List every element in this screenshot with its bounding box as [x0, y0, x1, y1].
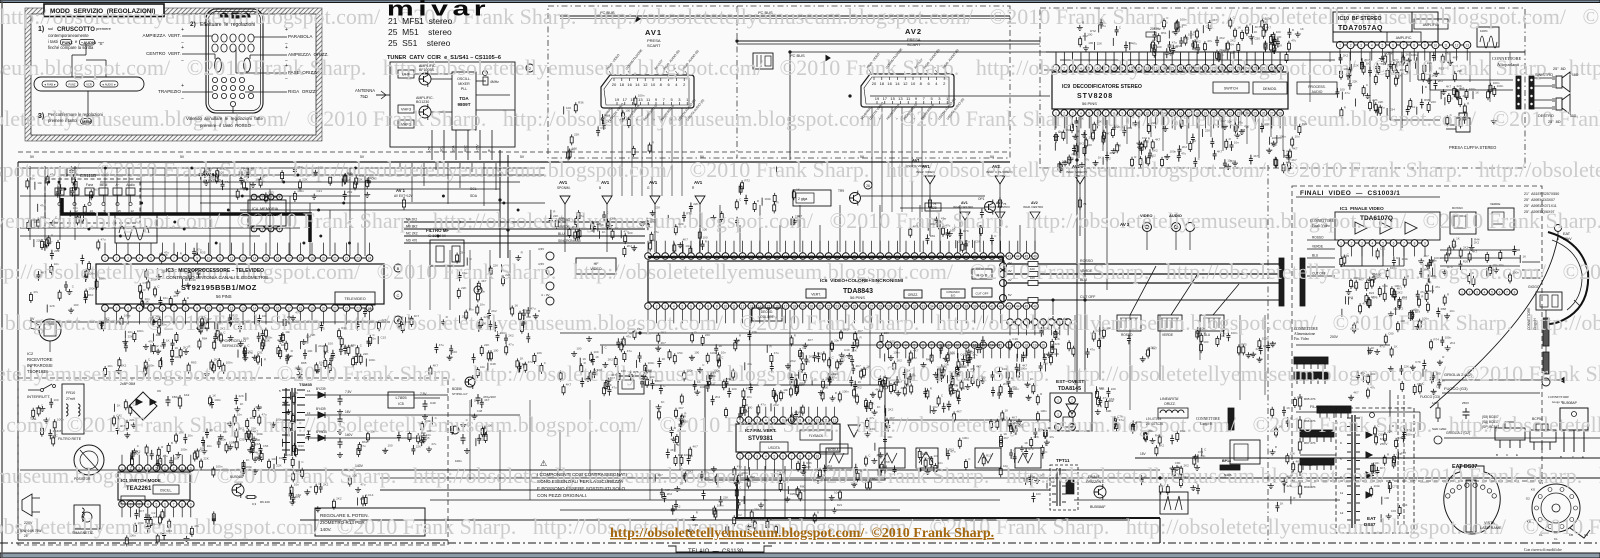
svg-text:TDA7057AQ: TDA7057AQ [1338, 25, 1383, 32]
svg-text:100: 100 [1276, 35, 1281, 39]
svg-text:100n: 100n [757, 517, 764, 521]
svg-text:1K: 1K [952, 227, 956, 231]
svg-text:100: 100 [1062, 159, 1067, 163]
svg-text:10n: 10n [834, 490, 839, 494]
svg-text:I²C BUS: I²C BUS [790, 53, 805, 58]
svg-text:22K: 22K [1097, 42, 1102, 46]
svg-text:3V: 3V [1008, 278, 1012, 282]
svg-text:R74: R74 [1433, 337, 1439, 341]
svg-text:2K2: 2K2 [856, 385, 862, 389]
svg-text:AGC: AGC [464, 144, 468, 152]
svg-text:10n: 10n [1227, 119, 1232, 123]
svg-text:2K2: 2K2 [606, 119, 612, 123]
svg-text:1K: 1K [615, 227, 619, 231]
svg-text:22K: 22K [574, 132, 579, 136]
svg-text:4K7: 4K7 [678, 406, 684, 410]
svg-text:100n: 100n [137, 521, 144, 525]
svg-text:11: 11 [1137, 111, 1141, 115]
svg-text:3: 3 [127, 306, 129, 310]
svg-text:2K2: 2K2 [1272, 143, 1278, 147]
svg-text:1K: 1K [1390, 66, 1394, 70]
svg-text:4K7: 4K7 [41, 271, 47, 275]
svg-text:4K7: 4K7 [661, 341, 667, 345]
svg-text:10n: 10n [882, 387, 887, 391]
svg-text:C98: C98 [1240, 128, 1246, 132]
svg-text:R40: R40 [1155, 433, 1161, 437]
svg-text:4K7: 4K7 [1266, 26, 1272, 30]
svg-text:22K: 22K [884, 331, 889, 335]
svg-text:100n: 100n [151, 278, 158, 282]
svg-text:5V: 5V [700, 155, 705, 159]
svg-text:DEMOD.: DEMOD. [1263, 87, 1277, 91]
svg-text:100: 100 [255, 177, 260, 181]
svg-text:10n: 10n [944, 362, 949, 366]
svg-text:1: 1 [253, 195, 255, 199]
svg-text:4K7: 4K7 [913, 225, 919, 229]
svg-text:KG: KG [1531, 488, 1536, 492]
svg-text:5V: 5V [30, 155, 35, 159]
svg-text:100: 100 [751, 519, 756, 523]
svg-text:47u: 47u [361, 444, 366, 448]
svg-text:2K2: 2K2 [239, 427, 245, 431]
svg-text:4K7: 4K7 [156, 333, 162, 337]
svg-text:BF1005S: BF1005S [419, 68, 435, 72]
svg-text:7: 7 [791, 454, 793, 458]
svg-text:CONNETTORE: CONNETTORE [1294, 327, 1319, 331]
svg-text:10n: 10n [1460, 87, 1465, 91]
svg-text:C71: C71 [143, 281, 149, 285]
svg-text:R87: R87 [961, 364, 967, 368]
svg-text:7: 7 [173, 466, 175, 470]
svg-text:10n: 10n [237, 412, 242, 416]
svg-text:100n: 100n [1262, 336, 1269, 340]
svg-text:47u: 47u [1435, 285, 1440, 289]
svg-text:R72: R72 [744, 178, 750, 182]
svg-text:9: 9 [196, 256, 198, 260]
svg-text:47u: 47u [287, 453, 292, 457]
svg-text:6: 6 [782, 454, 784, 458]
svg-text:2K2: 2K2 [572, 225, 578, 229]
svg-text:A−: A− [115, 183, 119, 187]
svg-text:C51: C51 [1398, 436, 1404, 440]
svg-text:22K: 22K [1055, 337, 1060, 341]
svg-text:1K: 1K [474, 399, 478, 403]
svg-text:18: 18 [792, 304, 796, 308]
svg-text:ORIZZ.: ORIZZ. [908, 293, 919, 297]
svg-text:47u: 47u [135, 451, 140, 455]
svg-text:IC1 SWITCH MODE: IC1 SWITCH MODE [121, 478, 161, 483]
svg-text:2K2: 2K2 [1105, 156, 1111, 160]
svg-text:22K: 22K [958, 240, 963, 244]
svg-text:2K2: 2K2 [827, 464, 833, 468]
svg-text:8: 8 [185, 256, 187, 260]
svg-text:15V: 15V [1140, 452, 1147, 456]
svg-text:C57: C57 [1436, 384, 1442, 388]
svg-text:18: 18 [299, 256, 303, 260]
svg-text:R13: R13 [1439, 66, 1445, 70]
svg-text:2K2: 2K2 [675, 505, 681, 509]
svg-text:R49: R49 [964, 378, 970, 382]
svg-text:4K7: 4K7 [670, 448, 676, 452]
svg-text:8: 8 [1414, 241, 1416, 245]
svg-text:39: 39 [973, 254, 977, 258]
svg-text:TRAPEZIO: TRAPEZIO [158, 89, 181, 94]
svg-text:6: 6 [162, 306, 164, 310]
svg-text:100n: 100n [74, 166, 81, 170]
svg-text:22K: 22K [1055, 342, 1060, 346]
svg-text:4K7: 4K7 [296, 469, 302, 473]
svg-text:4K7: 4K7 [1221, 119, 1227, 123]
svg-text:4K7: 4K7 [889, 416, 895, 420]
svg-text:8: 8 [1413, 43, 1415, 47]
svg-text:4: 4 [673, 254, 675, 258]
svg-text:23: 23 [1237, 111, 1241, 115]
svg-text:4MHz: 4MHz [490, 80, 499, 84]
svg-text:R48: R48 [490, 362, 496, 366]
svg-text:13: 13 [1154, 111, 1158, 115]
svg-text:R99: R99 [41, 216, 47, 220]
svg-text:PROTEZ.: PROTEZ. [126, 499, 139, 503]
svg-text:100n: 100n [245, 465, 252, 469]
svg-text:4K7: 4K7 [1489, 268, 1495, 272]
svg-text:−: − [181, 58, 184, 64]
svg-text:100n: 100n [741, 471, 748, 475]
svg-text:4: 4 [1371, 43, 1373, 47]
svg-text:100: 100 [1276, 30, 1281, 34]
svg-text:19: 19 [801, 254, 805, 258]
svg-text:20: 20 [322, 306, 326, 310]
svg-text:47u: 47u [1090, 348, 1095, 352]
svg-text:2K2: 2K2 [843, 328, 849, 332]
svg-text:1: 1 [739, 454, 741, 458]
svg-text:TDA8843: TDA8843 [843, 288, 873, 295]
svg-text:1K: 1K [608, 378, 612, 382]
svg-text:SINCRONISMI: SINCRONISMI [558, 239, 581, 243]
svg-text:2K2: 2K2 [661, 331, 667, 335]
svg-text:2K2: 2K2 [1219, 48, 1225, 52]
svg-text:100: 100 [1051, 347, 1056, 351]
svg-text:C97: C97 [1206, 25, 1212, 29]
svg-text:4K7: 4K7 [1380, 466, 1386, 470]
svg-text:C86: C86 [459, 251, 465, 255]
svg-text:5: 5 [682, 304, 684, 308]
svg-text:100n: 100n [266, 336, 273, 340]
svg-text:SPGNIM.: SPGNIM. [557, 186, 571, 190]
svg-text:R35: R35 [790, 492, 796, 496]
svg-text:R21: R21 [1302, 122, 1308, 126]
svg-text:1K: 1K [1254, 30, 1258, 34]
svg-text:17: 17 [1187, 66, 1191, 70]
svg-text:100: 100 [1036, 492, 1041, 496]
svg-text:CONNETTORE: CONNETTORE [1548, 395, 1569, 399]
svg-text:100: 100 [576, 347, 581, 351]
svg-text:43: 43 [1007, 304, 1011, 308]
svg-text:11: 11 [964, 343, 968, 347]
svg-text:21: 21 [333, 306, 337, 310]
svg-text:5: 5 [156, 502, 158, 506]
svg-text:100: 100 [1203, 340, 1208, 344]
svg-text:10n: 10n [1220, 334, 1225, 338]
svg-text:VHF1: VHF1 [401, 122, 412, 127]
svg-text:1K: 1K [600, 223, 604, 227]
svg-text:100: 100 [1400, 319, 1405, 323]
svg-text:5V: 5V [30, 317, 35, 321]
svg-text:44: 44 [1016, 304, 1020, 308]
svg-text:1: 1 [647, 304, 649, 308]
svg-text:2: 2 [748, 418, 750, 422]
svg-text:10n: 10n [54, 262, 59, 266]
svg-text:100n: 100n [1374, 484, 1381, 488]
svg-text:TDA: TDA [459, 96, 469, 101]
svg-text:AV 1: AV 1 [396, 188, 406, 193]
svg-text:22K: 22K [806, 465, 811, 469]
svg-text:9: 9 [196, 306, 198, 310]
svg-text:10n: 10n [1374, 461, 1379, 465]
svg-text:C42: C42 [116, 413, 122, 417]
svg-text:10n: 10n [73, 206, 78, 210]
svg-text:47u: 47u [637, 327, 642, 331]
svg-text:10K: 10K [1106, 409, 1111, 413]
svg-text:R21: R21 [837, 503, 843, 507]
svg-text:AV1: AV1 [961, 201, 968, 205]
svg-text:47u: 47u [101, 238, 106, 242]
svg-text:2K2: 2K2 [478, 438, 484, 442]
svg-text:47u: 47u [360, 482, 365, 486]
svg-text:100: 100 [1391, 509, 1396, 513]
svg-text:1: 1 [647, 254, 649, 258]
svg-text:2K2: 2K2 [773, 403, 779, 407]
svg-text:ROSSO: ROSSO [1452, 206, 1464, 210]
svg-text:MIXER: MIXER [458, 82, 470, 86]
svg-text:5V: 5V [648, 369, 653, 373]
svg-text:26: 26 [1262, 66, 1266, 70]
svg-text:16Ω: 16Ω [1572, 73, 1579, 77]
svg-text:19: 19 [615, 97, 620, 102]
svg-text:IC3 : MICROPROCESSORE – TELEVI: IC3 : MICROPROCESSORE – TELEVIDEO [166, 268, 264, 274]
svg-text:10: 10 [911, 81, 916, 86]
svg-text:2K2: 2K2 [1184, 37, 1190, 41]
svg-text:47u: 47u [1018, 425, 1023, 429]
svg-text:47u: 47u [1181, 151, 1186, 155]
svg-text:19: 19 [310, 256, 314, 260]
svg-text:100: 100 [281, 343, 286, 347]
svg-text:100n: 100n [764, 197, 771, 201]
svg-text:19: 19 [875, 96, 880, 101]
svg-text:2: 2 [262, 195, 264, 199]
svg-text:22K: 22K [36, 239, 41, 243]
svg-text:1: 1 [879, 343, 881, 347]
svg-text:STV8208: STV8208 [1077, 93, 1113, 100]
svg-text:G2: G2 [1526, 497, 1530, 501]
svg-text:1K: 1K [145, 300, 149, 304]
svg-text:22K: 22K [1287, 484, 1292, 488]
svg-text:100n: 100n [229, 440, 236, 444]
svg-text:16: 16 [887, 81, 892, 86]
svg-text:1K: 1K [1394, 345, 1398, 349]
svg-text:1K: 1K [1005, 408, 1009, 412]
svg-text:22: 22 [1229, 111, 1233, 115]
svg-text:R98: R98 [160, 344, 166, 348]
svg-text:45: 45 [1025, 304, 1029, 308]
svg-text:10n: 10n [294, 483, 299, 487]
svg-text:AUDIO: AUDIO [1312, 90, 1323, 94]
svg-text:BC856: BC856 [452, 387, 462, 391]
svg-text:10n: 10n [1181, 23, 1186, 27]
svg-text:COMANDO: COMANDO [946, 290, 960, 294]
svg-text:100n: 100n [425, 419, 432, 423]
svg-text:100: 100 [262, 314, 267, 318]
svg-text:100n: 100n [148, 363, 155, 367]
svg-text:1K: 1K [1098, 156, 1102, 160]
svg-text:2K2: 2K2 [508, 334, 514, 338]
svg-text:R48: R48 [926, 358, 932, 362]
svg-text:C88: C88 [303, 341, 309, 345]
svg-text:E: E [1516, 453, 1518, 457]
svg-text:R6 220: R6 220 [260, 500, 270, 504]
svg-text:BCP54: BCP54 [1532, 417, 1543, 421]
svg-text:B: B [397, 266, 400, 271]
svg-text:10n: 10n [644, 378, 649, 382]
svg-text:22K: 22K [1205, 129, 1210, 133]
svg-text:17: 17 [883, 96, 888, 101]
svg-text:2K2: 2K2 [1343, 54, 1349, 58]
svg-text:1K: 1K [1278, 425, 1282, 429]
svg-text:100: 100 [217, 338, 222, 342]
svg-text:R68: R68 [1441, 307, 1447, 311]
svg-text:2K2: 2K2 [1003, 382, 1009, 386]
svg-text:47u: 47u [295, 311, 300, 315]
svg-text:13: 13 [90, 209, 94, 213]
svg-text:47u: 47u [626, 334, 631, 338]
svg-text:LINEARITA': LINEARITA' [1160, 397, 1179, 401]
svg-text:Finali Video: Finali Video [1312, 224, 1330, 228]
svg-text:4K7: 4K7 [1253, 154, 1259, 158]
svg-text:47u: 47u [1119, 418, 1124, 422]
svg-text:C21: C21 [317, 189, 323, 193]
svg-text:100n: 100n [686, 368, 693, 372]
svg-text:http://obsoletetellyemuseum.bl: http://obsoletetellyemuseum.blogspot.com… [0, 310, 1600, 335]
svg-text:10: 10 [207, 256, 211, 260]
svg-text:47u: 47u [462, 271, 467, 275]
svg-text:10n: 10n [161, 323, 166, 327]
svg-text:5V: 5V [860, 155, 865, 159]
svg-text:C70: C70 [1447, 97, 1453, 101]
svg-text:100: 100 [572, 147, 577, 151]
svg-text:C26: C26 [946, 402, 952, 406]
svg-text:IC7 FIN. VERT.: IC7 FIN. VERT. [745, 428, 776, 433]
svg-text:22K: 22K [276, 463, 281, 467]
svg-text:20: 20 [810, 254, 814, 258]
svg-text:10: 10 [724, 254, 728, 258]
svg-text:100: 100 [1030, 257, 1035, 261]
svg-text:10n: 10n [938, 461, 943, 465]
svg-text:4: 4 [673, 304, 675, 308]
svg-text:4K7: 4K7 [1424, 254, 1430, 258]
svg-text:C53: C53 [268, 190, 274, 194]
svg-text:9809T: 9809T [457, 102, 470, 107]
svg-text:AMPLIFIC.: AMPLIFIC. [1396, 36, 1413, 40]
svg-text:2K2: 2K2 [257, 406, 263, 410]
svg-text:C73: C73 [1392, 485, 1398, 489]
svg-text:2K2: 2K2 [1164, 155, 1170, 159]
svg-text:IC1 FINALE VIDEO: IC1 FINALE VIDEO [1340, 206, 1384, 212]
svg-text:29: 29 [887, 304, 891, 308]
svg-text:PARABOLA: PARABOLA [288, 34, 313, 39]
svg-text:EAT: EAT [1563, 232, 1571, 236]
svg-text:TPT11: TPT11 [1056, 458, 1070, 463]
svg-text:4K7: 4K7 [1287, 474, 1293, 478]
svg-text:7: 7 [1105, 111, 1107, 115]
svg-text:27mH: 27mH [66, 397, 76, 401]
svg-text:B: B [1560, 455, 1562, 459]
svg-text:R23: R23 [232, 314, 238, 318]
svg-text:26: 26 [1262, 111, 1266, 115]
svg-text:◄ AUDIO ►: ◄ AUDIO ► [102, 82, 117, 86]
svg-text:10n: 10n [526, 309, 531, 313]
svg-text:100: 100 [890, 340, 895, 344]
svg-text:43: 43 [1007, 254, 1011, 258]
svg-text:13: 13 [307, 411, 311, 415]
svg-text:3: 3 [664, 304, 666, 308]
svg-text:10n: 10n [1449, 309, 1454, 313]
svg-text:22K: 22K [484, 315, 489, 319]
svg-text:1K: 1K [907, 368, 911, 372]
svg-text:100: 100 [73, 303, 78, 307]
svg-text:10n: 10n [107, 364, 112, 368]
svg-text:IC2: IC2 [27, 351, 34, 356]
svg-text:R44: R44 [1474, 238, 1480, 242]
svg-text:SCL: SCL [440, 146, 444, 152]
svg-text:13: 13 [1154, 66, 1158, 70]
svg-text:22K: 22K [1354, 64, 1359, 68]
svg-text:56 PINS: 56 PINS [850, 295, 865, 300]
svg-text:100n: 100n [88, 287, 95, 291]
svg-text:6: 6 [922, 343, 924, 347]
svg-text:10n: 10n [351, 343, 356, 347]
svg-text:18: 18 [1024, 343, 1028, 347]
svg-text:100n: 100n [1188, 33, 1195, 37]
svg-text:23: 23 [835, 254, 839, 258]
svg-text:1K: 1K [166, 338, 170, 342]
svg-text:2K2: 2K2 [1410, 105, 1416, 109]
svg-text:R11: R11 [840, 357, 846, 361]
svg-text:7: 7 [699, 304, 701, 308]
svg-text:Fin. Video: Fin. Video [1294, 337, 1309, 341]
svg-text:ZIOMETRO R13 PER: ZIOMETRO R13 PER [320, 520, 365, 525]
svg-text:4K7: 4K7 [940, 373, 946, 377]
svg-text:I²C BUS: I²C BUS [600, 10, 615, 15]
svg-text:10n: 10n [777, 469, 782, 473]
svg-text:4K7: 4K7 [856, 364, 862, 368]
svg-text:47u: 47u [627, 349, 632, 353]
svg-text:IC6 VIDEO+COLORE+SINCRONISMI: IC6 VIDEO+COLORE+SINCRONISMI [820, 278, 904, 284]
svg-text:8: 8 [181, 466, 183, 470]
svg-text:14: 14 [1162, 66, 1166, 70]
svg-text:22K: 22K [239, 394, 244, 398]
svg-text:100: 100 [559, 216, 564, 220]
svg-text:2K2: 2K2 [1089, 135, 1095, 139]
svg-text:STV9381: STV9381 [748, 436, 774, 442]
svg-text:25" L0TC25: 25" L0TC25 [1146, 422, 1163, 426]
svg-text:MC 2K2: MC 2K2 [406, 232, 418, 236]
svg-text:26: 26 [861, 254, 865, 258]
svg-text:4: 4 [147, 466, 149, 470]
svg-text:SCART: SCART [907, 42, 921, 47]
svg-text:Alimentazione: Alimentazione [1294, 332, 1316, 336]
svg-text:15: 15 [767, 254, 771, 258]
svg-text:R97 27K: R97 27K [1304, 441, 1316, 445]
svg-text:4K7: 4K7 [206, 317, 212, 321]
